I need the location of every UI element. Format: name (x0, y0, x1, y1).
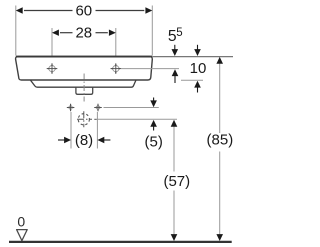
svg-text:(85): (85) (207, 132, 234, 149)
dim 57 line (173, 126, 175, 172)
svg-text:28: 28 (75, 25, 92, 42)
arrow 28 left (52, 30, 59, 36)
extension line right of 28 dim (115, 28, 117, 74)
washbasin apron outline (16, 56, 153, 80)
extension line left of 8 dim (70, 112, 72, 149)
floor line (9, 241, 232, 243)
svg-text:0: 0 (17, 213, 25, 229)
dim 85 top arrow (216, 57, 223, 64)
dim 8 right arrow (97, 137, 104, 144)
dim 8 left arrow (58, 139, 65, 141)
tap centerline extension (121, 68, 179, 70)
extension line left of 60 dim (15, 6, 17, 56)
dim 85 bottom arrow (216, 234, 223, 241)
tap hole right (113, 66, 119, 72)
dimension line 60 (24, 10, 73, 12)
trap crosshair vertical (83, 111, 85, 127)
fixing line extension (104, 107, 159, 109)
dim 57 top arrow (171, 120, 178, 127)
arrow 60 right (145, 7, 152, 13)
trap circle (78, 114, 89, 125)
extension line right of 8 dim (96, 112, 98, 149)
drain outlet box (76, 87, 93, 94)
dim 57 bottom arrow (171, 234, 178, 241)
centerline of basin (83, 74, 85, 102)
fixing point right (96, 106, 99, 109)
svg-text:5: 5 (176, 27, 182, 39)
dim 10 upper arrow (197, 45, 199, 50)
arrow 60 left (16, 7, 23, 13)
trap centerline extension (97, 118, 178, 120)
washbasin bowl underside (31, 80, 136, 87)
extension line right of 60 dim (151, 6, 153, 56)
dim 5 lower arrow (150, 120, 157, 127)
svg-text:10: 10 (190, 60, 207, 77)
extension line left of 28 dim (51, 28, 53, 74)
dim 5-5 upper arrow (174, 45, 176, 50)
fixing point left (69, 106, 72, 109)
dim 5-5 lower arrow (172, 69, 179, 76)
dim 85 line (219, 63, 221, 133)
apron bottom extension line (10) (181, 79, 203, 81)
svg-text:(57): (57) (163, 173, 190, 190)
arrow 28 right (109, 30, 116, 36)
dimension line 28 (60, 32, 73, 34)
svg-text:(8): (8) (75, 132, 93, 149)
dim 5 upper arrow (153, 98, 155, 102)
dim 10 lower arrow (194, 81, 201, 88)
tap hole left (49, 66, 55, 72)
svg-text:60: 60 (75, 3, 92, 20)
top surface extension line (153, 56, 234, 58)
datum triangle (17, 230, 28, 241)
trap crosshair horizontal (77, 118, 92, 120)
svg-text:(5): (5) (145, 134, 163, 151)
basin top edge emphasis (16, 56, 152, 58)
